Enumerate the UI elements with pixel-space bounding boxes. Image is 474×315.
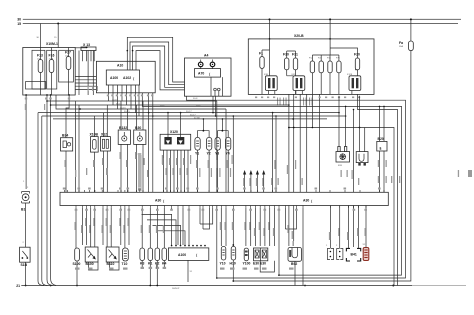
fusebox compartment F13 bbox=[32, 50, 45, 89]
X12 inner bars bbox=[102, 139, 104, 148]
rail pale extension bbox=[412, 285, 466, 287]
A100 bottom pin wires bbox=[109, 85, 140, 93]
svg-text:30-15: 30-15 bbox=[112, 99, 118, 101]
fusebox to A100 mesh wires bbox=[75, 77, 106, 90]
inner box A70 bbox=[195, 69, 221, 78]
bar pin numbers top bbox=[63, 188, 381, 190]
fuse F31 bbox=[293, 58, 297, 70]
B30 stem bbox=[139, 132, 141, 136]
junction at 279/275 bbox=[278, 274, 280, 276]
svg-text:37-88: 37-88 bbox=[194, 118, 200, 120]
H10 lead to edge bbox=[232, 260, 234, 281]
svg-text:DM10P: DM10P bbox=[172, 288, 180, 290]
component B33 glow box bbox=[336, 152, 350, 163]
fusebox pin dots bbox=[25, 94, 27, 96]
component B34 bbox=[61, 138, 73, 151]
svg-text:30-15: 30-15 bbox=[116, 103, 122, 105]
wire extra drops left bbox=[76, 101, 80, 192]
junction dot H10 bbox=[232, 244, 234, 246]
B33 pin wires bbox=[339, 96, 346, 147]
fusebox lower-left compartment bbox=[26, 82, 46, 89]
glow plug circle 2 in A4 bbox=[210, 62, 215, 67]
relay K39 bbox=[293, 76, 305, 91]
bar top pin ticks bbox=[64, 190, 384, 192]
connector H10 bbox=[231, 247, 236, 261]
bar pin numbers bottom bbox=[75, 209, 367, 211]
svg-text:Y2: Y2 bbox=[207, 152, 211, 156]
fuse F20 bbox=[355, 58, 359, 70]
svg-text:15: 15 bbox=[17, 22, 21, 26]
X12 leads bbox=[104, 105, 108, 192]
svg-text:T10: T10 bbox=[122, 262, 128, 266]
svg-text:F1: F1 bbox=[259, 52, 263, 56]
wire fusebox to X13 bbox=[75, 47, 86, 49]
A10x top pin dots bbox=[171, 245, 206, 247]
wire A10 pin to x404 loop bbox=[142, 93, 401, 275]
injector bridge wires Y1 Y2 bbox=[198, 119, 210, 137]
fusebox pin number smudges bbox=[25, 86, 154, 110]
S100 lead down bbox=[76, 261, 78, 286]
X13 pin wires down bbox=[83, 51, 95, 62]
junction dot bbox=[269, 18, 271, 20]
fuse F1 leads bbox=[261, 50, 263, 94]
elbow stubs bbox=[172, 208, 189, 245]
svg-text:F13: F13 bbox=[37, 54, 43, 58]
wire from bus 15 to fusebox left bbox=[40, 24, 42, 48]
junction dot bus bbox=[79, 108, 81, 110]
wire bus row y118.9 bbox=[53, 118, 327, 120]
B41 feeds bbox=[349, 206, 359, 249]
connector X13 bar bbox=[81, 47, 96, 51]
svg-text:A100: A100 bbox=[178, 253, 186, 257]
wire A4 pin to x396 loop bbox=[187, 96, 406, 278]
A102b bottom pin bbox=[187, 260, 189, 282]
component B132 bbox=[118, 130, 130, 144]
B34 inner contact bbox=[63, 141, 66, 148]
glow plug circle 1 in A4 bbox=[198, 62, 203, 67]
wire bus30 to X20-B left bbox=[269, 19, 271, 39]
svg-text:B110: B110 bbox=[107, 262, 115, 266]
relay K38 bbox=[265, 76, 277, 91]
junction dot bbox=[203, 130, 205, 132]
svg-text:F20: F20 bbox=[354, 53, 360, 57]
connector X120 box bbox=[160, 134, 191, 150]
bottom second label row smudges bbox=[75, 264, 294, 270]
wire from bus 15 to fusebox center bbox=[57, 24, 59, 48]
bracket connector pair 2 bbox=[337, 249, 343, 260]
elbow wires to A10x bbox=[142, 214, 186, 245]
injector Y2 bbox=[207, 137, 212, 150]
wire label smudges upper mid bbox=[65, 152, 473, 186]
fuse F16 lead bbox=[51, 48, 53, 96]
sensor B92 bbox=[288, 248, 302, 262]
B20 feed dots bbox=[379, 106, 385, 108]
svg-text:F30: F30 bbox=[283, 53, 289, 57]
sensor B110 bbox=[106, 247, 119, 262]
svg-text:X12: X12 bbox=[101, 132, 107, 136]
B34 inner circle bbox=[67, 143, 70, 146]
K resistor leads down bbox=[142, 261, 164, 286]
junction dot bbox=[25, 285, 27, 287]
junction dots on box edge bbox=[269, 38, 271, 40]
E30 bottom loop bbox=[260, 261, 274, 272]
B30 symbol bbox=[137, 136, 142, 141]
wire to H10 bbox=[232, 208, 234, 246]
svg-text:A30: A30 bbox=[303, 199, 309, 203]
B20 pin wires bbox=[380, 106, 385, 192]
fuse F12 leads bbox=[311, 55, 313, 94]
svg-text:30-8: 30-8 bbox=[160, 105, 165, 107]
relay K39 contacts bbox=[296, 78, 298, 88]
fusebox compartment F27 bbox=[59, 50, 74, 82]
resistor K1 bbox=[148, 248, 153, 261]
fuse F12 bbox=[310, 61, 314, 73]
fuse F30 leads bbox=[286, 51, 288, 76]
B34 leads bbox=[66, 95, 69, 192]
X120 AMP connector 2 bbox=[177, 137, 184, 144]
injector Y4 bbox=[226, 137, 231, 150]
wire bus row y116 bbox=[42, 115, 346, 117]
B30 leads bbox=[137, 101, 144, 192]
B33 top pins bbox=[338, 147, 340, 152]
fuse F1 bbox=[260, 57, 264, 69]
svg-text:30-17: 30-17 bbox=[186, 111, 192, 113]
component B30 bbox=[134, 130, 146, 144]
fusebox compartment F16 bbox=[47, 50, 57, 89]
wire A10 pins to buses bbox=[149, 93, 153, 193]
bus junction dots bbox=[148, 104, 347, 120]
fuse F27 bbox=[66, 57, 71, 70]
junction dots on nested wires bbox=[127, 50, 129, 52]
ECU outer box A10 bbox=[96, 61, 155, 93]
resistor K3 bbox=[140, 248, 145, 261]
A4 bottom circled pins bbox=[214, 88, 217, 91]
A4 bottom pin wires bbox=[211, 77, 223, 96]
wire S1B to rail bbox=[25, 262, 27, 285]
component B20 S box bbox=[377, 141, 387, 151]
svg-text:30-8: 30-8 bbox=[196, 105, 201, 107]
injector Y1 bbox=[195, 137, 200, 150]
wire bus row y105 bbox=[51, 95, 289, 105]
svg-text:X10M-1: X10M-1 bbox=[46, 42, 58, 46]
junction dots bbox=[288, 127, 290, 129]
B132 leads bbox=[121, 101, 128, 192]
svg-text:B132: B132 bbox=[119, 126, 127, 130]
fuse F71 leads bbox=[338, 55, 340, 94]
fuse F16b bbox=[328, 61, 332, 73]
arrow stub 1 bbox=[244, 174, 246, 193]
B100 bottom loop bbox=[89, 262, 99, 270]
wire A4 pin to x408 loop bbox=[358, 94, 398, 285]
svg-text:K128: K128 bbox=[347, 74, 353, 76]
fuse Fa top lead bbox=[410, 19, 412, 41]
relay pair E30 bbox=[254, 248, 268, 261]
connector B41 dashes bbox=[346, 248, 360, 261]
X13 pin wires through mesh bbox=[79, 51, 93, 96]
junction at 233/281 bbox=[232, 280, 234, 282]
B110 symbol arrow bbox=[109, 250, 117, 259]
svg-text:A10: A10 bbox=[117, 64, 123, 68]
wire X20B pin to x392 bbox=[289, 94, 395, 285]
relay K38 contacts bbox=[268, 78, 270, 88]
svg-text:A102: A102 bbox=[123, 76, 131, 80]
switch S1B bbox=[20, 247, 31, 262]
B132 symbol bbox=[122, 136, 127, 141]
M31 corner feed bbox=[364, 128, 366, 152]
M31 bottom pins bbox=[358, 163, 360, 166]
coil T10 bbox=[122, 248, 128, 261]
K capsule feed wires bbox=[142, 208, 164, 248]
arrow stub 2 bbox=[250, 174, 252, 193]
fuse F71 bbox=[337, 61, 341, 73]
svg-text:B92: B92 bbox=[291, 262, 297, 266]
ECU bar A30 bbox=[60, 192, 388, 205]
svg-text:§: § bbox=[380, 147, 382, 151]
svg-text:B100: B100 bbox=[86, 262, 94, 266]
X120 AMP connector 1 bbox=[164, 137, 171, 144]
svg-text:B34: B34 bbox=[62, 134, 68, 138]
bar bottom pin ticks bbox=[76, 206, 366, 208]
X10B inner bbox=[93, 140, 97, 150]
M31 coil symbol bbox=[359, 154, 364, 162]
X20-B bottom pin wires bbox=[268, 91, 352, 95]
svg-text:Fa: Fa bbox=[399, 41, 403, 45]
fuse Fa bottom lead long wire bbox=[233, 51, 411, 281]
A100 pins exiting outer box bbox=[109, 93, 140, 116]
X20-B pin label smudges bbox=[255, 97, 360, 106]
valve Y100 bbox=[244, 248, 248, 261]
X20-B internal wiring bbox=[262, 39, 358, 76]
ground rail bbox=[21, 285, 412, 287]
long vertical 353.5 bbox=[353, 110, 355, 248]
arrow stub 3 bbox=[256, 174, 258, 193]
component M31 coil box bbox=[356, 152, 368, 163]
svg-text:80A: 80A bbox=[399, 45, 403, 48]
fuse F16 bbox=[49, 60, 54, 73]
junction on rail bbox=[50, 285, 52, 287]
svg-text:X120: X120 bbox=[170, 130, 178, 134]
X10B leads bbox=[93, 116, 95, 192]
fusebox outline bbox=[23, 48, 75, 96]
fuse F13 bbox=[38, 60, 43, 73]
fuse F20 leads bbox=[357, 51, 359, 76]
wire bus to bar pins bbox=[217, 101, 276, 192]
svg-text:B20: B20 bbox=[378, 137, 384, 141]
arrow stub 4 bbox=[263, 174, 265, 193]
box X20-B bbox=[248, 39, 374, 95]
junction dot bbox=[222, 130, 224, 132]
relay K128 contacts bbox=[352, 78, 354, 88]
wire bus row y109 bbox=[56, 95, 226, 109]
svg-text:Y1: Y1 bbox=[195, 152, 199, 156]
wire bus30 to X20-B right bbox=[329, 19, 331, 39]
ECU inner box A100 A102 bbox=[106, 70, 139, 85]
below-bar wire group left bbox=[76, 208, 129, 248]
fuse F22 bbox=[319, 61, 323, 73]
fuse F27 lead bbox=[68, 48, 70, 96]
wire label smudges below bar bbox=[75, 218, 366, 240]
junction dot bbox=[329, 18, 331, 20]
wire X20-B pins to bar bbox=[289, 94, 320, 192]
wires from A100 top up over to A4 (nested) bbox=[127, 37, 184, 82]
B92 lead bbox=[295, 208, 303, 286]
wire bus 30 bbox=[23, 18, 461, 20]
wire B1 down bbox=[25, 203, 27, 247]
injector bottom leads bbox=[198, 150, 229, 192]
injector bridge wires Y3 Y4 bbox=[218, 119, 229, 137]
svg-text:A30: A30 bbox=[155, 199, 161, 203]
shielded cable hatch bbox=[138, 154, 142, 190]
svg-text:21: 21 bbox=[16, 284, 20, 288]
fuse F16b leads bbox=[329, 55, 331, 94]
wire to Y10 bbox=[221, 208, 226, 246]
fusebox left pin wire bbox=[25, 95, 27, 189]
junction on bus 15 bbox=[57, 23, 59, 25]
connector X10B bbox=[91, 137, 99, 153]
wire bus 15 bbox=[23, 23, 458, 25]
M31 pin wires bbox=[359, 96, 361, 152]
ECU box A102b bbox=[168, 248, 208, 261]
svg-text:H10: H10 bbox=[230, 262, 236, 266]
wire bar to bottom edge bbox=[278, 208, 280, 275]
B100 symbol arrow bbox=[88, 250, 96, 259]
B110 bottom loop bbox=[110, 262, 120, 270]
wire left drop pair bbox=[38, 101, 56, 286]
A4 internal pin stems bbox=[201, 60, 213, 69]
sensor B100 bbox=[85, 247, 98, 262]
box A4 bbox=[185, 58, 232, 96]
fuse F22 leads bbox=[320, 55, 322, 94]
wire 216.8 below bar bbox=[216, 206, 218, 279]
connector Y10 bbox=[221, 247, 226, 261]
svg-text:A70: A70 bbox=[198, 72, 204, 76]
svg-text:30-17: 30-17 bbox=[190, 114, 196, 116]
svg-text:X20-B: X20-B bbox=[294, 34, 304, 38]
S1B contacts bbox=[22, 257, 24, 259]
X120 pin wires down bbox=[164, 150, 189, 192]
wire A4 pin to x394 loop bbox=[213, 96, 216, 116]
svg-text:X 13: X 13 bbox=[83, 43, 90, 47]
junction dots on rail bbox=[392, 285, 394, 287]
wires to Y100 K30 bbox=[246, 208, 275, 246]
X2 feed bbox=[365, 206, 367, 248]
wire feeds to B40 bbox=[289, 128, 294, 242]
wire bus row y112.6 bbox=[38, 112, 339, 114]
resistor K2 bbox=[155, 248, 160, 261]
svg-text:A100: A100 bbox=[110, 76, 118, 80]
svg-text:Y10: Y10 bbox=[220, 262, 226, 266]
nested n wires bbox=[200, 208, 213, 229]
junction at X13 bbox=[86, 47, 88, 49]
sensor B1 bbox=[22, 192, 30, 204]
B132 stem bbox=[123, 132, 125, 136]
connector X2 red bbox=[363, 248, 369, 261]
svg-text:B30: B30 bbox=[135, 126, 141, 130]
svg-text:Y100: Y100 bbox=[243, 262, 251, 266]
wire bus row y101 bbox=[47, 95, 217, 101]
relay K128 bbox=[349, 76, 361, 91]
svg-text:E30 E30: E30 E30 bbox=[253, 262, 266, 266]
svg-text:B41: B41 bbox=[351, 253, 357, 257]
resistor K4 bbox=[162, 248, 167, 261]
B40 bridge wires bbox=[285, 208, 296, 246]
connector X12 bbox=[100, 137, 110, 151]
fuse F13 lead bbox=[40, 48, 42, 96]
svg-text:B1: B1 bbox=[21, 208, 25, 212]
X120 top leads bbox=[168, 113, 181, 137]
svg-text:F27: F27 bbox=[65, 51, 71, 55]
bracket feeds bbox=[330, 206, 339, 249]
fuse Fa bbox=[409, 41, 414, 51]
svg-text:F31: F31 bbox=[292, 53, 298, 57]
switch S100 bbox=[75, 248, 80, 261]
svg-text:A4: A4 bbox=[204, 54, 208, 58]
B33 glow symbol bbox=[339, 153, 346, 160]
bracket connector pair 1 bbox=[327, 249, 333, 260]
junction dot on bus 30 bbox=[410, 18, 412, 20]
svg-text:30-8: 30-8 bbox=[193, 98, 198, 100]
svg-text:S100: S100 bbox=[73, 262, 81, 266]
fuse F31 leads bbox=[295, 51, 297, 94]
fuse F30 bbox=[285, 58, 289, 70]
injector Y3 bbox=[215, 137, 220, 150]
svg-text:S1B: S1B bbox=[21, 263, 28, 267]
svg-text:X10B: X10B bbox=[90, 132, 99, 136]
